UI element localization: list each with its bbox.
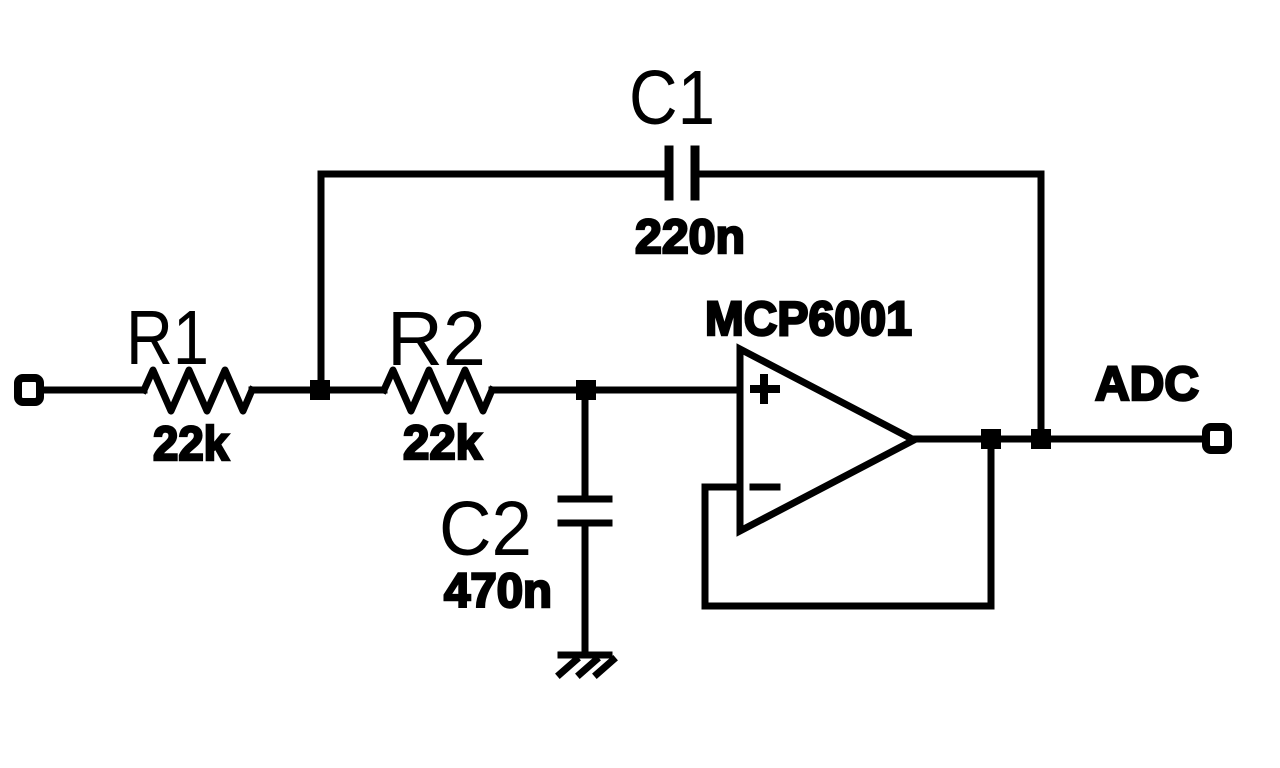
wire node B down to C2 [582, 390, 589, 496]
svg-text:R1: R1 [126, 295, 209, 381]
capacitor C2 [561, 499, 609, 523]
wire node B to op-amp + input [586, 387, 740, 394]
input terminal [18, 378, 40, 402]
op-amp + symbol [754, 378, 776, 400]
wire R1 to node A [252, 387, 320, 394]
svg-text:220n: 220n [635, 211, 745, 264]
capacitor C1 [669, 150, 695, 196]
wire node A to R2 [320, 387, 384, 394]
wire top to C1 [321, 171, 665, 178]
svg-text:R2: R2 [387, 296, 486, 382]
wire feedback stub to - input [705, 439, 991, 606]
node B junction [576, 380, 596, 400]
node feedback junction [1031, 429, 1051, 449]
svg-text:C1: C1 [629, 55, 715, 141]
node output junction [981, 429, 1001, 449]
wire C2 to ground [582, 526, 589, 652]
output terminal [1206, 427, 1228, 450]
resistor R2 [384, 370, 492, 411]
wire op-amp output [914, 436, 1203, 443]
wire C1 to right corner [700, 174, 1041, 439]
svg-text:22k: 22k [403, 417, 482, 470]
svg-text:MCP6001: MCP6001 [705, 293, 912, 346]
svg-text:ADC: ADC [1095, 358, 1199, 411]
op-amp U1 [740, 349, 914, 531]
ground [560, 655, 613, 674]
wire input to R1 [42, 387, 144, 394]
node A junction [310, 380, 330, 400]
svg-text:C2: C2 [439, 486, 532, 572]
wire R2 to node B [492, 387, 586, 394]
resistor R1 [144, 370, 252, 411]
op-amp - symbol [753, 484, 777, 491]
svg-text:470n: 470n [444, 565, 552, 618]
wire node A up [318, 174, 325, 390]
svg-text:22k: 22k [153, 418, 229, 471]
